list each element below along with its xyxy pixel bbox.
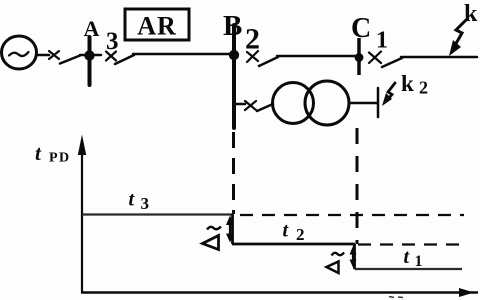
svg-text:A: A — [84, 16, 100, 41]
svg-text:2: 2 — [296, 225, 305, 244]
svg-text:2: 2 — [245, 23, 260, 56]
svg-text:k: k — [401, 71, 414, 96]
svg-text:3: 3 — [106, 28, 119, 55]
svg-text:k: k — [464, 1, 478, 27]
svg-text:PD: PD — [49, 151, 71, 166]
svg-text:2: 2 — [419, 78, 428, 98]
svg-text:C: C — [351, 13, 371, 44]
svg-text:3: 3 — [141, 194, 150, 213]
svg-text:1: 1 — [415, 253, 423, 270]
svg-text:AR: AR — [137, 12, 177, 41]
svg-text:1: 1 — [376, 28, 388, 54]
svg-text:B: B — [223, 10, 242, 42]
